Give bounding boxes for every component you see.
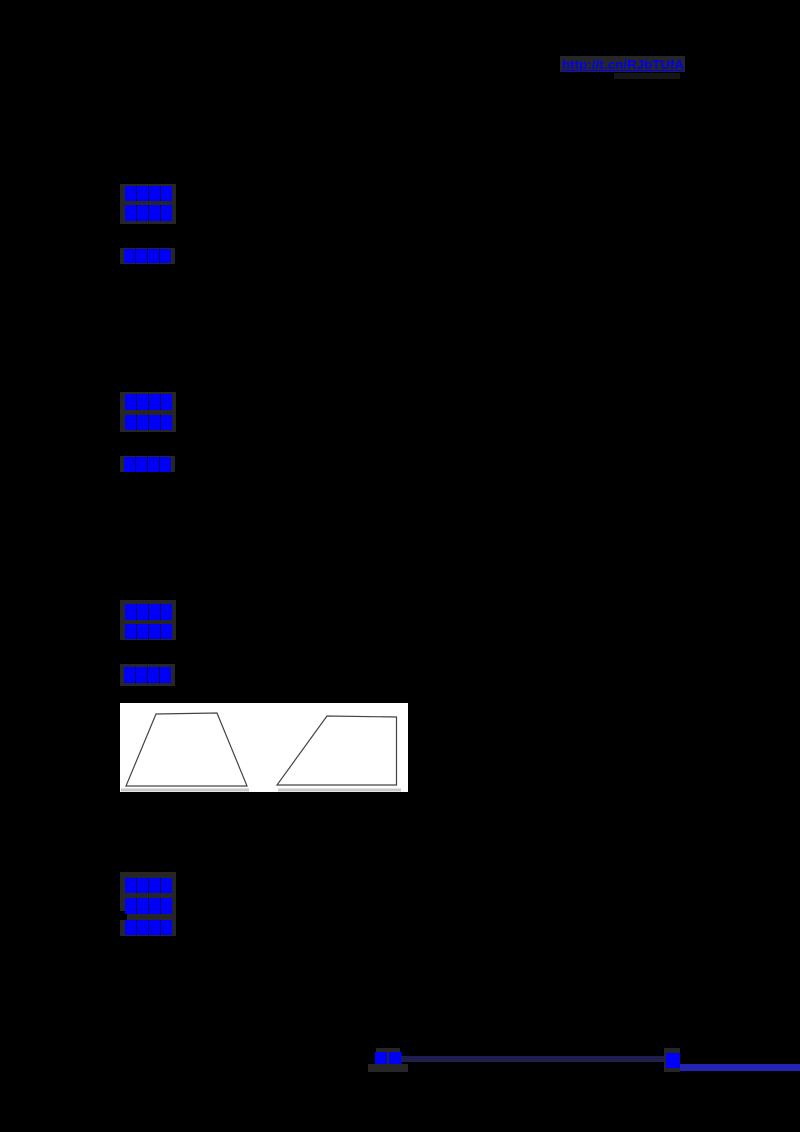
block3 comment highlight box (120, 664, 175, 686)
footer navy rule (401, 1056, 664, 1062)
block4 highlight box (120, 872, 176, 936)
footer right highlight box (664, 1048, 680, 1072)
figure image box with two trapezoids (120, 703, 408, 792)
block1 highlight box (analysis/answer) (120, 184, 176, 224)
left trapezoid (126, 713, 247, 786)
block1 blue row 2 (125, 205, 172, 221)
block2 comment blue row (124, 457, 171, 472)
footer left blue glyphs (375, 1052, 387, 1066)
footer right blue glyph (666, 1053, 680, 1068)
footer left lower highlight box (368, 1064, 408, 1072)
block1 comment blue row (124, 249, 171, 263)
block1 blue row 1 (125, 186, 172, 201)
top-right hyperlink text (562, 57, 687, 72)
block3 highlight box (120, 600, 176, 640)
faint text remnant under link (614, 73, 680, 79)
block2 blue row 2 (125, 415, 172, 430)
block2 comment highlight box (120, 456, 175, 472)
block3 blue row 2 (125, 624, 172, 639)
top-right link highlight box (560, 56, 685, 72)
block2 blue row 1 (125, 394, 172, 410)
block1 comment highlight box (120, 248, 175, 264)
left trapezoid shadow (121, 789, 249, 792)
footer bright blue rule (680, 1064, 800, 1071)
right trapezoid (277, 716, 397, 785)
block4 blue row 3 (125, 920, 172, 935)
block4 notch (120, 911, 127, 920)
block3 comment blue row (124, 667, 171, 683)
footer left highlight box (376, 1048, 400, 1064)
right trapezoid shadow (278, 789, 401, 792)
block3 blue row 1 (125, 604, 172, 620)
block2 highlight box (120, 392, 176, 432)
block4 blue row 2 (125, 898, 172, 914)
block4 blue row 1 (125, 878, 172, 893)
